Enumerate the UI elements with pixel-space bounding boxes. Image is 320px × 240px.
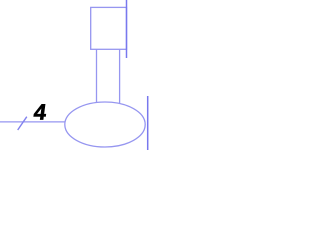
terminal box rectangle [91,7,127,49]
wire: neck right line [119,49,121,104]
wire: vertical bus line right of motor [147,96,149,150]
wire: neck left line [96,49,98,103]
conductor-count slash [18,117,27,130]
wire: vertical bus line through terminal box [126,0,128,58]
wire: horizontal leader line [0,121,65,123]
motor body ellipse [65,102,145,147]
svg-text:4: 4 [32,99,48,124]
